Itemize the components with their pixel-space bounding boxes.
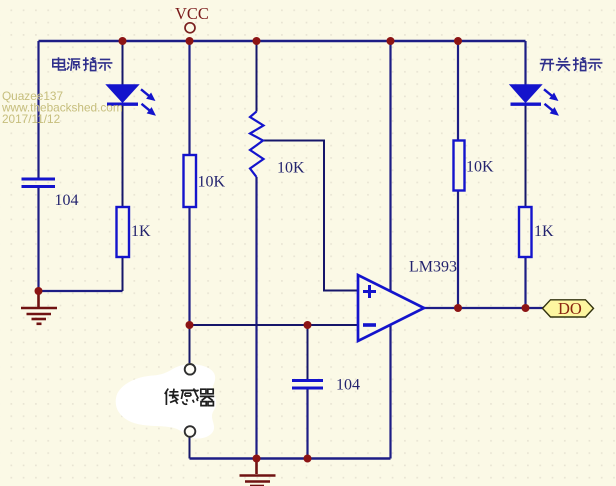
wire R2 bottom to minus node — [188, 208, 190, 326]
potentiometer R3 zigzag — [250, 112, 264, 178]
wire R1 bottom stub — [122, 257, 124, 291]
wire opamp V+ pin — [389, 41, 391, 291]
svg-text:10K: 10K — [466, 159, 494, 176]
wire VCC branch down to R2 — [188, 41, 190, 155]
wire minus input line — [190, 324, 359, 326]
junction dot rail at VCC — [186, 37, 194, 45]
ground symbol left — [21, 291, 57, 324]
label 开关指示 (drawn strokes) — [540, 57, 603, 71]
wire C2 top stub — [307, 325, 309, 379]
junction dot bottom ground node — [253, 455, 261, 463]
sensor label 传感器 (drawn strokes) — [165, 388, 214, 405]
sensor terminal circle top — [185, 364, 196, 375]
capacitor C1 104 plates — [22, 179, 56, 187]
junction dot left ground node — [35, 287, 43, 295]
wire pot wiper tap to plus input — [263, 141, 358, 291]
resistor R1 1K body — [117, 207, 130, 257]
resistor R5 1K body — [519, 207, 532, 257]
svg-text:DO: DO — [558, 299, 582, 318]
op-amp U1 LM393 triangle — [358, 275, 424, 341]
op-amp U1 plus input symbol — [363, 285, 376, 298]
svg-text:LM393: LM393 — [409, 259, 457, 276]
LED D2 — [511, 85, 559, 115]
wire sensor top stub — [189, 325, 191, 363]
LED D1 — [107, 85, 155, 115]
ground symbol bottom — [240, 459, 276, 486]
svg-text:10K: 10K — [277, 160, 305, 177]
wire R5 bottom to output line — [524, 257, 526, 308]
VCC circle terminal — [185, 23, 195, 33]
junction dot output at R4 — [454, 304, 462, 312]
sensor cloud background — [116, 364, 217, 438]
svg-text:104: 104 — [336, 377, 360, 394]
junction dot rail at opamp V+ — [387, 37, 395, 45]
wire pot top stub — [256, 41, 258, 112]
svg-text:10K: 10K — [198, 174, 226, 191]
svg-text:1K: 1K — [534, 223, 554, 240]
wire bottom ground rail — [190, 457, 391, 460]
wire LED D1 cathode to R1 — [122, 105, 124, 207]
wire opamp output line — [424, 307, 543, 309]
junction dot output at R5 — [522, 304, 530, 312]
resistor R2 10K body — [184, 155, 197, 207]
wire R4 top stub — [457, 41, 459, 141]
wire R4 bottom to output line — [457, 191, 459, 309]
wire left vertical lower — [37, 188, 39, 292]
junction dot bottom at C2 — [304, 455, 312, 463]
wire left horizontal to R1 — [39, 290, 123, 292]
junction dot rail at R4 — [454, 37, 462, 45]
wire sensor bottom stub — [189, 437, 191, 459]
resistor R4 10K body — [454, 141, 465, 191]
wire C2 bottom stub — [306, 389, 308, 459]
label 电源指示 (drawn strokes) — [53, 57, 113, 71]
wire left vertical upper — [37, 41, 39, 178]
svg-text:VCC: VCC — [175, 4, 209, 23]
junction dot minus node left — [186, 321, 194, 329]
wire opamp V- pin to bottom rail — [389, 325, 391, 459]
wire LED D1 anode stub — [122, 41, 124, 86]
wire LED D2 cathode to R5 — [525, 105, 527, 207]
wire pot bottom long vertical — [255, 177, 257, 459]
op-amp U1 minus input symbol — [363, 323, 376, 327]
junction dot rail at pot — [253, 37, 261, 45]
junction dot minus node at C2 — [304, 321, 312, 329]
wire top rail — [39, 40, 526, 43]
capacitor C2 104 plates — [292, 381, 323, 389]
svg-text:104: 104 — [55, 192, 79, 209]
wire right branch vertical upper — [524, 41, 526, 86]
svg-text:2017/11/12: 2017/11/12 — [2, 112, 60, 126]
port DO tag — [543, 300, 594, 317]
junction dot rail at x122 — [119, 37, 127, 45]
sensor terminal circle bottom — [185, 426, 196, 437]
svg-text:1K: 1K — [131, 223, 151, 240]
